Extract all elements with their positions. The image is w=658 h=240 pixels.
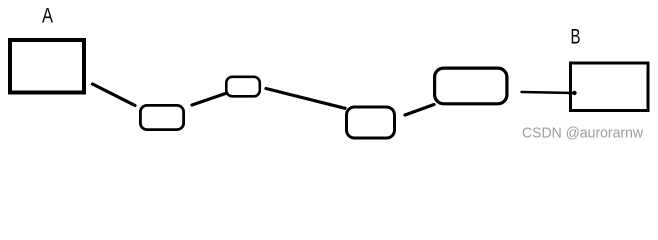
wire node 3 to node 4 <box>405 105 434 116</box>
wire node 1 to node 2 <box>192 94 226 106</box>
node 4 (rounded) <box>435 68 507 104</box>
node 2 (rounded) <box>226 77 259 97</box>
node B box <box>571 63 649 111</box>
node 1 (rounded) <box>140 105 183 129</box>
node 3 (rounded) <box>347 107 395 138</box>
svg-text:A: A <box>42 5 53 28</box>
svg-text:CSDN @aurorarnw: CSDN @aurorarnw <box>522 126 643 142</box>
wire node 4 to node B <box>522 92 575 93</box>
wire endpoint dot <box>572 91 576 95</box>
wire A to node 1 <box>93 84 136 106</box>
wire node 2 to node 3 <box>266 89 345 109</box>
svg-text:B: B <box>571 26 581 49</box>
node A box <box>10 40 84 93</box>
